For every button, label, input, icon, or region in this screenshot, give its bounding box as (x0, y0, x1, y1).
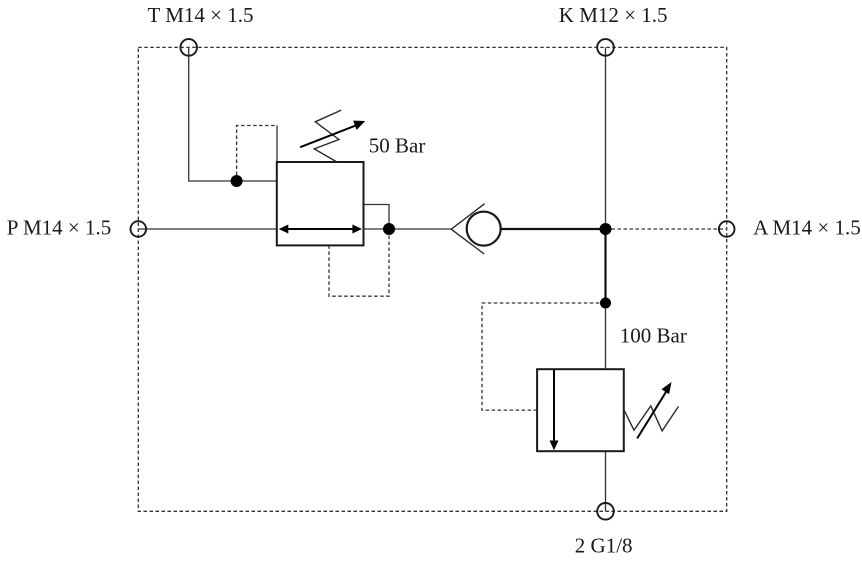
svg-text:T M14 × 1.5: T M14 × 1.5 (148, 3, 254, 27)
svg-text:100 Bar: 100 Bar (620, 324, 687, 348)
svg-text:K M12 × 1.5: K M12 × 1.5 (559, 3, 668, 27)
svg-text:A M14 × 1.5: A M14 × 1.5 (753, 215, 861, 239)
svg-text:2 G1/8: 2 G1/8 (575, 533, 633, 557)
svg-text:P M14 × 1.5: P M14 × 1.5 (7, 215, 111, 239)
svg-text:50 Bar: 50 Bar (369, 133, 426, 157)
